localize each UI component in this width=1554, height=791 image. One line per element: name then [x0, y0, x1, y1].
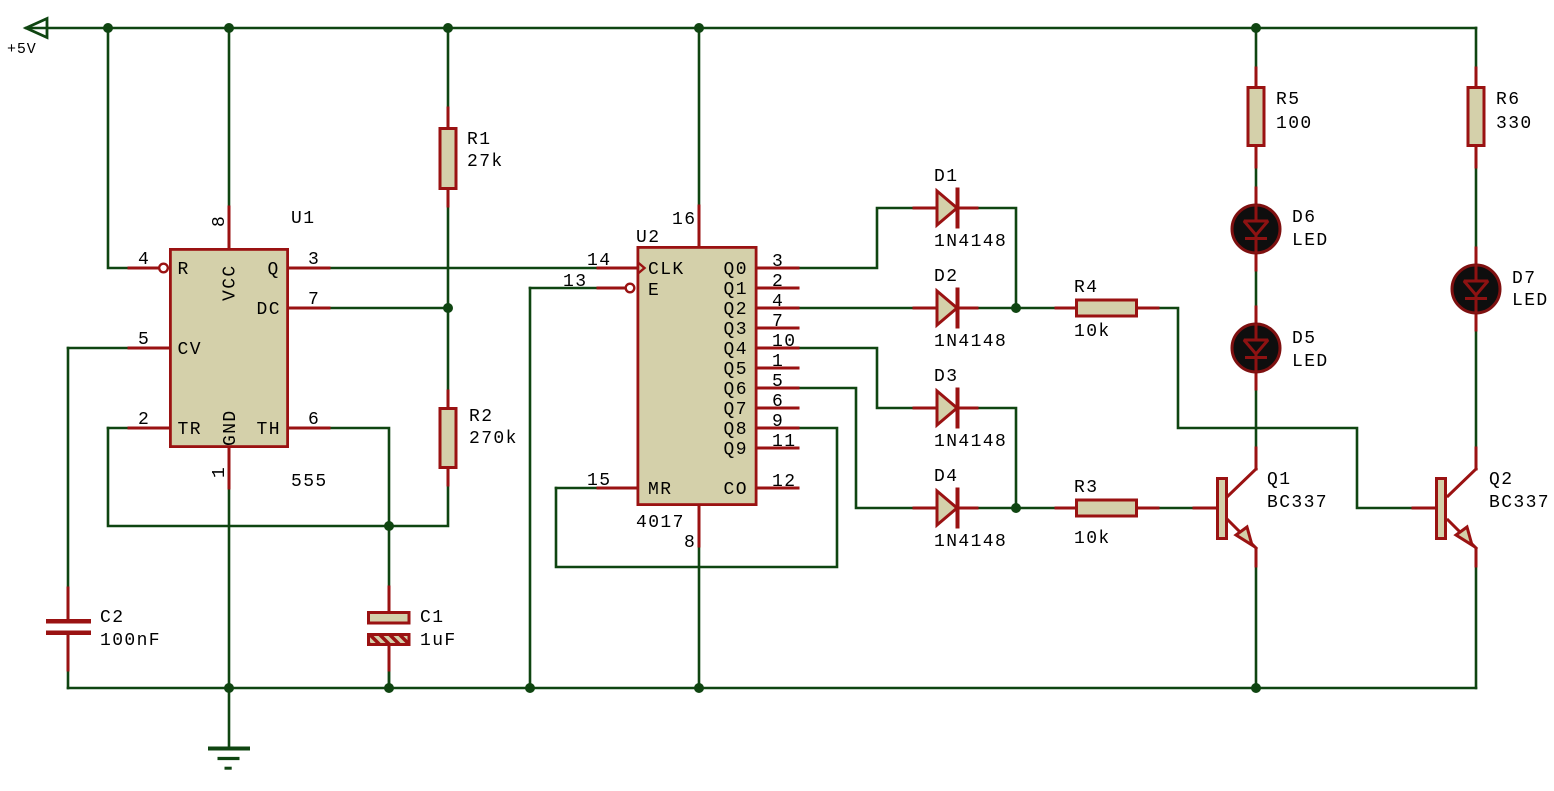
svg-text:7: 7	[772, 312, 784, 332]
svg-text:R4: R4	[1074, 278, 1098, 298]
svg-text:10k: 10k	[1074, 322, 1111, 342]
svg-text:BC337: BC337	[1267, 493, 1328, 513]
svg-text:Q: Q	[268, 260, 280, 280]
svg-text:R: R	[178, 260, 190, 280]
svg-text:D1: D1	[934, 167, 958, 187]
svg-text:5: 5	[138, 330, 150, 350]
svg-text:Q2: Q2	[1489, 470, 1513, 490]
svg-text:CO: CO	[724, 480, 748, 500]
svg-text:2: 2	[772, 272, 784, 292]
svg-text:D3: D3	[934, 367, 958, 387]
svg-text:C2: C2	[100, 608, 124, 628]
svg-text:1: 1	[772, 352, 784, 372]
svg-text:330: 330	[1496, 114, 1533, 134]
svg-text:D7: D7	[1512, 269, 1536, 289]
svg-text:3: 3	[772, 252, 784, 272]
svg-text:R3: R3	[1074, 478, 1098, 498]
svg-text:CLK: CLK	[648, 260, 685, 280]
svg-text:U2: U2	[636, 228, 660, 248]
svg-text:1N4148: 1N4148	[934, 532, 1007, 552]
svg-text:6: 6	[772, 392, 784, 412]
svg-text:13: 13	[563, 272, 587, 292]
svg-text:16: 16	[672, 210, 696, 230]
svg-text:Q2: Q2	[724, 300, 748, 320]
svg-text:D6: D6	[1292, 208, 1316, 228]
svg-text:1N4148: 1N4148	[934, 332, 1007, 352]
svg-text:Q1: Q1	[1267, 470, 1291, 490]
svg-text:R6: R6	[1496, 90, 1520, 110]
svg-text:1uF: 1uF	[420, 631, 457, 651]
svg-text:2: 2	[138, 410, 150, 430]
svg-text:Q7: Q7	[724, 400, 748, 420]
svg-text:8: 8	[684, 533, 696, 553]
svg-text:555: 555	[291, 472, 328, 492]
svg-text:TH: TH	[257, 420, 281, 440]
svg-text:MR: MR	[648, 480, 672, 500]
svg-text:3: 3	[308, 250, 320, 270]
svg-text:6: 6	[308, 410, 320, 430]
svg-text:12: 12	[772, 472, 796, 492]
svg-text:8: 8	[210, 215, 230, 227]
svg-text:U1: U1	[291, 209, 315, 229]
svg-text:Q1: Q1	[724, 280, 748, 300]
svg-text:R2: R2	[469, 407, 493, 427]
svg-text:10: 10	[772, 332, 796, 352]
svg-text:10k: 10k	[1074, 529, 1111, 549]
svg-text:1N4148: 1N4148	[934, 432, 1007, 452]
svg-text:R5: R5	[1276, 90, 1300, 110]
svg-text:4: 4	[138, 250, 150, 270]
svg-text:1N4148: 1N4148	[934, 232, 1007, 252]
svg-text:Q0: Q0	[724, 260, 748, 280]
svg-text:4017: 4017	[636, 513, 685, 533]
svg-text:Q8: Q8	[724, 420, 748, 440]
svg-text:E: E	[648, 281, 660, 301]
svg-text:CV: CV	[178, 340, 202, 360]
svg-text:100: 100	[1276, 114, 1313, 134]
svg-text:D4: D4	[934, 467, 958, 487]
svg-text:DC: DC	[257, 300, 281, 320]
svg-text:27k: 27k	[467, 152, 504, 172]
svg-text:1: 1	[210, 466, 230, 478]
svg-text:D2: D2	[934, 267, 958, 287]
svg-text:7: 7	[308, 290, 320, 310]
svg-text:GND: GND	[221, 409, 241, 446]
svg-text:BC337: BC337	[1489, 493, 1550, 513]
svg-text:VCC: VCC	[221, 264, 241, 301]
svg-text:R1: R1	[467, 130, 491, 150]
svg-text:11: 11	[772, 432, 796, 452]
svg-text:100nF: 100nF	[100, 631, 161, 651]
svg-text:TR: TR	[178, 420, 202, 440]
svg-text:Q3: Q3	[724, 320, 748, 340]
svg-text:Q5: Q5	[724, 360, 748, 380]
svg-text:D5: D5	[1292, 329, 1316, 349]
svg-text:+5V: +5V	[7, 41, 37, 58]
svg-text:Q6: Q6	[724, 380, 748, 400]
svg-text:C1: C1	[420, 608, 444, 628]
svg-text:5: 5	[772, 372, 784, 392]
svg-text:Q4: Q4	[724, 340, 748, 360]
svg-text:LED: LED	[1292, 352, 1329, 372]
svg-text:15: 15	[587, 471, 611, 491]
svg-text:Q9: Q9	[724, 440, 748, 460]
svg-text:LED: LED	[1292, 231, 1329, 251]
svg-text:4: 4	[772, 292, 784, 312]
svg-text:270k: 270k	[469, 429, 518, 449]
svg-text:LED: LED	[1512, 291, 1549, 311]
svg-text:9: 9	[772, 412, 784, 432]
svg-text:14: 14	[587, 251, 611, 271]
